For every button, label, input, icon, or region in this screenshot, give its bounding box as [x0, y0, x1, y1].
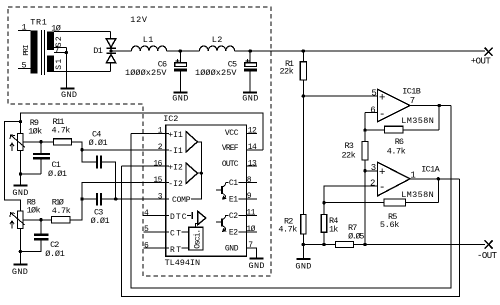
svg-text:PRI: PRI: [23, 45, 31, 56]
svg-text:-OUT: -OUT: [477, 251, 498, 261]
capacitor C3: [82, 198, 96, 200]
svg-text:-I1: -I1: [168, 147, 183, 156]
potentiometer R9: [18, 134, 24, 151]
transformer TR1 secondary winding S1: [47, 55, 54, 72]
junction center tap: [65, 51, 68, 54]
capacitor C6: [179, 51, 181, 63]
svg-text:TL494IN: TL494IN: [165, 258, 201, 268]
pin 1 of TR1: [18, 29, 31, 31]
node R1/pin5: [302, 94, 305, 97]
svg-text:6: 6: [370, 105, 375, 115]
wiper wire R9: [23, 141, 53, 143]
svg-text:1: 1: [158, 127, 163, 136]
dashed enclosure: [8, 7, 271, 276]
IC2 error amp 1: [186, 132, 197, 153]
comparator output bus: [191, 142, 202, 199]
svg-text:Ø.Ø1: Ø.Ø1: [45, 249, 65, 259]
svg-text:13: 13: [248, 159, 257, 168]
svg-text:1Øk: 1Øk: [27, 206, 41, 216]
svg-text:6: 6: [144, 242, 149, 251]
svg-text:5: 5: [144, 225, 149, 234]
svg-text:5.6k: 5.6k: [380, 220, 400, 230]
svg-text:5: 5: [371, 88, 376, 98]
svg-text:+: +: [379, 92, 386, 104]
node wiper/C1: [39, 140, 42, 143]
wire D1 to L1: [111, 50, 131, 52]
svg-text:VCC: VCC: [225, 129, 239, 138]
svg-text:CT: CT: [170, 229, 181, 238]
svg-text:4: 4: [144, 209, 149, 218]
node pin2/C4: [80, 148, 83, 151]
DTC buffer triangle: [198, 211, 206, 224]
IC2 left pin stubs: [166, 132, 170, 134]
svg-text:22k: 22k: [342, 151, 356, 161]
ground (R8): [13, 263, 27, 265]
svg-text:1: 1: [22, 23, 27, 33]
svg-text:GND: GND: [249, 261, 265, 271]
pin 4 DTC stub: [144, 214, 170, 216]
wire pin3: [365, 170, 378, 172]
resistor R5: [324, 202, 384, 204]
ground (output rail): [302, 245, 304, 259]
resistor R1: [302, 51, 304, 62]
wiper wire R8: [23, 219, 51, 221]
svg-text:4.7k: 4.7k: [52, 125, 71, 135]
node pin3: [363, 169, 366, 172]
wire R9 bottom to ground: [20, 151, 22, 186]
svg-text:12: 12: [248, 127, 257, 136]
node R1: [302, 49, 305, 52]
svg-text:7: 7: [410, 96, 415, 106]
pin 5 CT stub: [144, 231, 170, 233]
node R4 bottom: [322, 243, 325, 246]
potentiometer R8: [18, 211, 24, 229]
svg-text:14: 14: [248, 143, 257, 152]
node IC1A output: [437, 177, 440, 180]
svg-text:4.7k: 4.7k: [52, 206, 71, 216]
terminal +OUT: [485, 48, 493, 56]
wire branch to R8: [4, 122, 20, 211]
node C5: [249, 49, 252, 52]
wire to IC1B +input: [303, 95, 377, 97]
svg-text:12V: 12V: [130, 15, 148, 25]
VREF rail to potentiometers: [21, 113, 264, 150]
svg-text:TR1: TR1: [30, 18, 47, 28]
svg-text:GND: GND: [12, 267, 28, 277]
wire IC2 pin7 to ground: [246, 248, 256, 258]
wire R3 to pin3 node and down to shunt: [364, 160, 366, 245]
wire R1 node down to R2: [302, 96, 304, 214]
svg-text:+I1: +I1: [168, 131, 183, 140]
svg-text:GND: GND: [61, 90, 77, 100]
pin 10 of TR1 / wire to D1 top: [54, 30, 111, 32]
pin 6 stub of IC1B: [365, 112, 378, 114]
pin 6 RT stub: [144, 247, 170, 249]
svg-text:C2: C2: [229, 212, 238, 221]
ground (R9): [14, 184, 28, 186]
svg-text:GND: GND: [295, 261, 311, 271]
svg-text:IC1A: IC1A: [421, 164, 440, 174]
op-amp IC1B: [378, 89, 411, 122]
ground (TR1 center tap): [60, 88, 74, 90]
node VREF branch: [19, 120, 22, 123]
transformer TR1 core: [41, 30, 43, 75]
resistor R4: [323, 203, 325, 215]
svg-text:LM358N: LM358N: [401, 116, 434, 126]
capacitor C2: [40, 220, 42, 234]
svg-text:11: 11: [246, 209, 255, 218]
svg-text:E2: E2: [229, 228, 238, 237]
wire R11 to pin2 node: [72, 142, 83, 150]
svg-text:-I2: -I2: [168, 180, 183, 189]
node pin2/R4/R5: [322, 201, 325, 204]
wire IC1A output riser to bottom rail: [121, 166, 459, 296]
svg-text:+OUT: +OUT: [471, 56, 492, 66]
svg-text:+: +: [379, 167, 386, 179]
node pin6/R6/R3: [363, 128, 366, 131]
wire R8 bottom to ground: [19, 229, 21, 265]
ground (IC2 pin7): [250, 258, 264, 260]
DTC input symbol: [187, 214, 191, 216]
svg-text:DTC: DTC: [170, 213, 187, 222]
svg-text:+I2: +I2: [168, 164, 183, 173]
node pin15/R10/C3: [80, 197, 83, 200]
svg-text:4.7k: 4.7k: [387, 146, 406, 156]
svg-text:Osci.: Osci.: [194, 229, 203, 249]
svg-text:Ø.Ø1: Ø.Ø1: [91, 216, 110, 226]
resistor R3: [364, 130, 366, 142]
svg-text:-: -: [379, 182, 386, 194]
resistor R10: [52, 217, 71, 223]
wire center tap to ground: [65, 53, 67, 89]
svg-text:1k: 1k: [329, 224, 338, 234]
wire shunt to -OUT: [354, 244, 486, 246]
svg-text:RT: RT: [170, 246, 181, 255]
svg-text:R3: R3: [345, 141, 354, 151]
terminal -OUT: [485, 240, 493, 248]
svg-text:L2: L2: [212, 35, 223, 45]
svg-text:1ØØØx25V: 1ØØØx25V: [125, 68, 167, 78]
svg-text:GND: GND: [242, 94, 258, 104]
wire IC2 pin14: [246, 149, 263, 151]
inductor L2: [199, 46, 234, 51]
svg-text:GND: GND: [12, 188, 28, 198]
svg-text:E1: E1: [229, 196, 238, 205]
CT RT connections: [182, 231, 189, 233]
wire IC1B output: [410, 105, 451, 107]
resistor R11: [54, 139, 72, 145]
svg-text:Ø.Ø1: Ø.Ø1: [48, 169, 67, 179]
svg-text:VREF: VREF: [222, 144, 239, 153]
transformer TR1 secondary winding S2: [47, 32, 54, 50]
wire R10 to pin15 node: [70, 199, 82, 220]
node L1/C6: [179, 49, 182, 52]
node D1 output: [110, 49, 113, 52]
capacitor C4: [82, 150, 96, 162]
svg-text:IC2: IC2: [163, 114, 178, 124]
right pin stubs: [246, 132, 257, 134]
svg-text:GND: GND: [225, 245, 239, 254]
diode D1 (dual, common cathode): [110, 31, 112, 39]
wire IC2 pin16: [121, 165, 165, 167]
svg-text:Ø.Ø5: Ø.Ø5: [348, 232, 364, 242]
oscillator box: [189, 227, 203, 250]
wire S1 bottom to D1 bottom: [54, 70, 111, 72]
capacitor C1: [40, 142, 42, 154]
wire COMP to IC2 pin3: [102, 198, 165, 200]
node R7/R3 riser: [363, 243, 366, 246]
svg-text:S1: S1: [55, 59, 64, 70]
wire IC2 pin1: [131, 132, 166, 134]
node R8/C2 ground: [19, 250, 22, 253]
svg-text:C1: C1: [229, 179, 238, 188]
ground (C6): [173, 92, 187, 94]
node IC1B output: [438, 104, 441, 107]
svg-text:3: 3: [158, 192, 163, 201]
wire IC1A -input: [324, 186, 378, 203]
svg-text:16: 16: [153, 160, 162, 169]
svg-text:R6: R6: [395, 137, 404, 147]
svg-text:OUTC: OUTC: [222, 160, 239, 169]
svg-text:-: -: [379, 109, 386, 121]
node R9/C1 ground: [19, 172, 22, 175]
transformer TR1 primary winding: [30, 30, 37, 73]
svg-text:D1: D1: [93, 46, 103, 56]
svg-text:9: 9: [247, 192, 252, 201]
svg-text:22k: 22k: [280, 66, 294, 76]
IC2 error amp 2: [186, 163, 198, 184]
svg-text:1Ø: 1Ø: [246, 225, 255, 234]
svg-text:GND: GND: [172, 94, 188, 104]
svg-text:1ØØØx25V: 1ØØØx25V: [195, 68, 237, 78]
svg-text:7: 7: [55, 45, 60, 55]
ground (C5): [243, 92, 257, 94]
svg-text:2: 2: [158, 143, 163, 152]
wire L1 to L2: [167, 50, 200, 52]
pin 5 of TR1: [18, 67, 31, 69]
svg-text:4.7k: 4.7k: [278, 225, 297, 235]
inductor L1: [131, 46, 166, 51]
wire L2 to +OUT: [235, 50, 485, 52]
svg-text:5: 5: [22, 61, 27, 71]
svg-text:L1: L1: [143, 35, 154, 45]
wire IC1B output riser to lower rail: [131, 106, 451, 289]
IC2 box: [166, 125, 247, 256]
transistor Q1 (C1/E1): [216, 189, 221, 191]
wire IC2 pin15: [82, 183, 166, 199]
node C4/COMP: [114, 197, 117, 200]
resistor R2: [301, 214, 306, 234]
resistor R6: [365, 129, 385, 131]
svg-text:IC1B: IC1B: [402, 87, 421, 97]
svg-text:8: 8: [247, 176, 252, 185]
svg-text:2: 2: [370, 178, 375, 188]
svg-text:3: 3: [371, 163, 376, 173]
capacitor C5: [249, 51, 251, 63]
svg-text:Ø.Ø1: Ø.Ø1: [89, 138, 108, 148]
shunt rail (-OUT / GND rail): [303, 244, 335, 246]
wire IC2 pin2: [82, 149, 166, 151]
svg-text:COMP: COMP: [172, 196, 191, 205]
resistor R7: [336, 241, 354, 247]
svg-text:1Ø: 1Ø: [51, 23, 61, 33]
node wiper/C2: [39, 218, 42, 221]
svg-text:1Øk: 1Øk: [28, 126, 42, 136]
svg-text:LM358N: LM358N: [401, 190, 434, 200]
transistor Q2 (C2/E2): [216, 221, 221, 223]
svg-text:15: 15: [153, 176, 162, 185]
node R2 ground: [302, 243, 305, 246]
op-amp IC1A: [378, 162, 411, 196]
wire IC1A output: [410, 178, 460, 180]
